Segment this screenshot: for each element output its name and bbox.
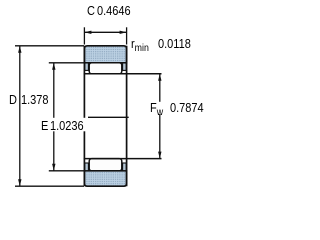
needle roller (top) bbox=[89, 63, 122, 74]
bore envelope line top (Fw extension) bbox=[84, 73, 162, 75]
E arrow up bbox=[52, 63, 55, 70]
E extension lines bbox=[49, 62, 84, 64]
label D value bbox=[9, 93, 17, 107]
label r_min value bbox=[131, 37, 149, 51]
centerline bbox=[88, 116, 129, 118]
E arrow down bbox=[52, 164, 55, 171]
bore envelope line bottom (Fw extension) bbox=[84, 158, 162, 160]
E dimension line bbox=[53, 63, 55, 118]
D extension lines bbox=[15, 45, 84, 47]
C arrow left bbox=[84, 31, 91, 34]
C arrow right bbox=[120, 31, 127, 34]
flange top-right bbox=[123, 63, 127, 70]
outer ring bottom band bbox=[84, 171, 126, 186]
label E value bbox=[39, 118, 87, 131]
D arrow down bbox=[18, 179, 21, 186]
needle roller (bottom) bbox=[89, 159, 122, 171]
D arrow up bbox=[18, 46, 21, 53]
Fw arrow up bbox=[158, 74, 161, 81]
bearing right side edge bbox=[126, 46, 128, 186]
C extension lines bbox=[83, 27, 85, 44]
D dimension line bbox=[19, 46, 21, 186]
C dimension line bbox=[84, 31, 126, 33]
label Fw value bbox=[149, 102, 167, 115]
Fw dimension line bbox=[159, 74, 161, 102]
label C value bbox=[87, 4, 95, 18]
flange bottom-right bbox=[123, 163, 127, 171]
Fw arrow down bbox=[158, 152, 161, 159]
bearing left side edge bbox=[83, 46, 85, 118]
outer ring top band bbox=[84, 46, 126, 63]
flange bottom-left bbox=[85, 163, 89, 171]
flange top-left bbox=[85, 63, 89, 70]
